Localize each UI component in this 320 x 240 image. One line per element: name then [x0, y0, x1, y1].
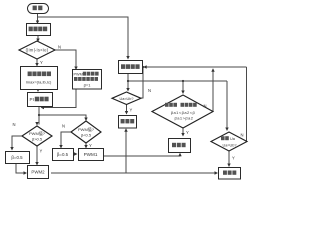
process box C PI regulator	[28, 93, 53, 107]
svg-text:N: N	[13, 122, 16, 127]
process box beta2	[53, 149, 74, 161]
process box PWM-signal fixed duty	[73, 70, 102, 90]
process box B find max	[21, 67, 58, 90]
wire voltage box down to diamond Du	[127, 74, 129, 91]
wire box A to diamond D1	[37, 35, 39, 40]
wire right edge vertical from D5 N	[246, 67, 248, 142]
wire distribution line y81	[128, 80, 227, 82]
decision diamond D2	[22, 126, 52, 146]
wire top tap to voltage-sample column	[38, 17, 129, 57]
process box balanced 3	[219, 168, 241, 180]
wire beta box1 to PWM2 box	[16, 163, 26, 173]
arrowhead into PWM2 left	[24, 171, 28, 174]
label text D5 two lines	[221, 136, 229, 140]
wire Du N branch up to return line	[141, 67, 143, 98]
svg-text:PWM: PWM	[74, 72, 83, 76]
junction dot D4 tap	[182, 80, 184, 82]
process box balanced 1	[119, 116, 137, 129]
arrowhead into balanced box3 top	[227, 164, 230, 168]
decision diamond D3	[71, 121, 101, 143]
arrowhead up into balanced box2 bottom	[178, 153, 181, 157]
arrowhead into balanced box2 top	[181, 133, 184, 137]
wire PWM1 out to balanced box 2 bottom	[103, 154, 180, 156]
wire D3 N branch to beta box 2	[61, 132, 71, 147]
label text voltage box	[121, 64, 140, 69]
arrowhead into beta box1	[10, 147, 13, 151]
label text balanced box2	[172, 143, 186, 147]
wire D4 N branch up to return line	[212, 69, 214, 112]
svg-text:Y: Y	[40, 60, 43, 65]
svg-text:Y: Y	[232, 156, 235, 161]
arrowhead up into balanced box1 bottom	[124, 128, 127, 132]
wire D1 Y branch down	[36, 59, 38, 65]
arrowhead into PWM-signal box	[74, 67, 77, 71]
arrowhead into Du top	[126, 88, 129, 92]
arrowhead into PI top	[36, 89, 39, 93]
wire PWM2 out long bottom line to balanced box 3	[51, 172, 217, 174]
arrowhead into voltage box top	[126, 56, 129, 60]
wire PWM-signal box to PI box	[42, 89, 76, 108]
svg-text:Y: Y	[89, 143, 92, 148]
label text start	[33, 6, 43, 11]
wire D2 Y branch to PWM2 box	[36, 146, 38, 164]
svg-text:PWM2: PWM2	[31, 170, 45, 175]
label text D4 three lines	[165, 103, 197, 107]
process box beta1	[6, 152, 30, 164]
svg-text:N: N	[58, 45, 61, 50]
svg-text:Y: Y	[40, 149, 43, 154]
svg-text:N: N	[241, 133, 244, 138]
wire drop into diamond D4 top	[182, 81, 184, 92]
process box balanced 2	[169, 139, 191, 153]
process box PWM1	[79, 149, 104, 161]
arrowhead into D5 top	[225, 128, 228, 132]
svg-text:Ua≈Ub?: Ua≈Ub?	[223, 144, 237, 148]
svg-text:PWM值?: PWM值?	[78, 126, 95, 132]
svg-text:β=1: β=1	[84, 83, 92, 88]
svg-text:N: N	[204, 104, 207, 109]
junction dot Du N on return line	[142, 66, 144, 68]
svg-text:β=0.5: β=0.5	[11, 155, 23, 160]
arrowhead into PWM1 left	[74, 152, 78, 155]
wire D5 Y branch to balanced box 3	[228, 151, 230, 166]
arrowhead into PWM2 top	[35, 162, 38, 166]
wire start to current-sample box	[37, 13, 39, 22]
wire PI out to diamond D2	[38, 107, 40, 125]
decision diamond D5 voltage check	[211, 132, 247, 151]
process box A current sampling	[27, 24, 51, 36]
label text balanced box3	[223, 171, 236, 175]
wire PI out branch to diamond D3	[39, 115, 86, 120]
svg-text:PWM值?: PWM值?	[29, 130, 46, 136]
svg-text:β>0.5: β>0.5	[32, 137, 43, 142]
wire D4 Y branch to balanced box 2	[182, 128, 184, 135]
wire Du Y branch to balanced box 1	[126, 105, 128, 114]
svg-text:Ua≈Ub?: Ua≈Ub?	[120, 97, 134, 101]
arrowhead into balanced box3 left	[215, 171, 219, 174]
svg-text:β=0.5: β=0.5	[57, 152, 69, 157]
arrowhead into box A	[36, 21, 39, 25]
junction dot sample split y81	[127, 80, 129, 82]
arrowhead into D2 top	[35, 122, 38, 126]
arrowhead into D3 top	[84, 118, 87, 122]
wire return line into voltage box right edge	[144, 66, 247, 68]
arrowhead joining PI output line	[41, 106, 45, 109]
svg-text:N: N	[62, 124, 65, 129]
wire D3 Y branch to PWM1 box	[85, 143, 87, 147]
svg-text:PI: PI	[30, 97, 34, 102]
svg-text:Y: Y	[130, 108, 133, 113]
svg-text:βa1>βa2: βa1>βa2	[175, 116, 194, 121]
wire beta box2 to PWM1 box	[73, 153, 77, 155]
svg-text:β<0.5: β<0.5	[81, 133, 92, 138]
svg-text:N: N	[148, 88, 151, 93]
arrowhead into D1	[36, 39, 39, 43]
arrowhead into D4 top	[181, 91, 184, 95]
arrowhead into max box	[35, 63, 38, 67]
svg-text:Y: Y	[186, 130, 189, 135]
wire max box to PI box	[37, 89, 39, 91]
svg-text:PWM1: PWM1	[84, 152, 98, 157]
label text box A	[29, 27, 48, 32]
process box PWM2	[28, 166, 49, 179]
svg-text:βa1<βa2<β: βa1<βa2<β	[171, 110, 196, 115]
start terminator	[28, 4, 49, 14]
wire drop into diamond D5 top	[226, 81, 228, 130]
wire D2 N branch to beta box 1	[12, 136, 22, 149]
label text PI box	[30, 97, 49, 102]
svg-text:Imax=(Ia,Ib,Ic): Imax=(Ia,Ib,Ic)	[26, 79, 52, 84]
decision diamond D1 current compare	[19, 41, 55, 59]
arrowhead into balanced box1 top	[125, 111, 128, 115]
arrowhead up on D4 N return	[211, 68, 214, 72]
wire bottom line up into balanced box 1	[125, 130, 127, 173]
svg-text:(|Im|-Is<Ie): (|Im|-Is<Ie)	[26, 48, 49, 53]
decision diamond D4 adjust beta	[152, 95, 213, 128]
label text balanced box1	[121, 119, 135, 123]
junction dot PI split	[38, 114, 40, 116]
arrowhead into beta box2	[59, 145, 62, 149]
arrowhead into PWM1 top	[84, 145, 87, 149]
process box voltage sampling	[119, 61, 143, 74]
arrowhead into voltage box right edge	[143, 65, 147, 68]
label text box B line1 blobs	[28, 72, 51, 77]
decision diamond Du voltage equal	[112, 92, 141, 105]
wire D1 N branch to PWM-signal box	[55, 50, 76, 69]
